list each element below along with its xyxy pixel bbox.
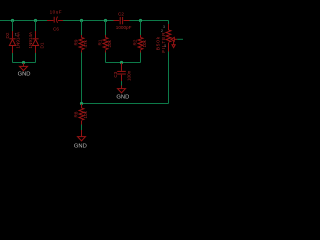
resistor R2 [133, 35, 147, 53]
svg-text:R9: R9 [74, 39, 79, 45]
potentiometer RV1 FILTER [156, 24, 178, 53]
wire pot bottom to mid bus [168, 52, 170, 104]
resistor R1 [98, 35, 112, 53]
wire D1 bottom [35, 53, 37, 63]
svg-text:2: 2 [161, 29, 163, 33]
svg-text:1000pF: 1000pF [116, 25, 132, 30]
svg-text:100n: 100n [127, 70, 132, 81]
diode D1 [28, 31, 45, 53]
node junction R8 top [80, 102, 83, 105]
svg-text:D1: D1 [40, 42, 45, 48]
svg-text:10k: 10k [142, 39, 147, 47]
wire mid bus [82, 103, 169, 105]
svg-text:D2: D2 [5, 32, 10, 38]
wire top right corner drop [168, 21, 170, 25]
svg-text:3: 3 [163, 25, 165, 29]
node junction D1 top [34, 19, 37, 22]
capacitor C3 [113, 63, 131, 81]
wire R9 bottom long [81, 53, 83, 104]
svg-text:20k: 20k [107, 39, 112, 47]
wire top bus right segment [130, 20, 169, 22]
node junction R2 top [139, 19, 142, 22]
capacitor C6 [47, 10, 63, 32]
wire top bus middle segment [63, 20, 114, 22]
svg-text:10uF: 10uF [50, 10, 62, 15]
svg-text:C2: C2 [118, 12, 124, 17]
svg-text:R8: R8 [74, 111, 79, 117]
svg-text:C6: C6 [53, 27, 59, 32]
svg-text:1N914A: 1N914A [28, 31, 33, 49]
svg-text:R2: R2 [133, 39, 138, 45]
svg-text:GND: GND [74, 143, 87, 149]
node junction C3 top [120, 61, 123, 64]
wire D1 drop [35, 21, 37, 32]
svg-text:B50k: B50k [156, 36, 162, 50]
wire top bus left segment [0, 20, 47, 22]
svg-text:1: 1 [15, 33, 17, 37]
node junction D2 top [11, 19, 14, 22]
svg-text:GND: GND [18, 72, 31, 78]
ground GND3 [74, 130, 87, 149]
diode D2 [5, 31, 21, 53]
resistor R8 [74, 104, 88, 125]
svg-text:GND: GND [116, 95, 129, 101]
ground GND2 [116, 86, 129, 101]
svg-text:10k: 10k [83, 110, 88, 118]
resistor R9 [74, 35, 88, 53]
svg-text:1: 1 [164, 44, 166, 48]
wire diode bottom bus [13, 62, 36, 64]
wire D2 drop [12, 21, 14, 32]
wire D2 bottom [12, 53, 14, 63]
wire C3 to gnd [121, 81, 123, 86]
wire R8 to gnd [81, 125, 83, 131]
wire R1 bottom [105, 53, 107, 63]
wire R1-R2 bottom bus [106, 62, 141, 64]
wire R2 top [140, 21, 142, 36]
node junction R1 top [104, 19, 107, 22]
node junction R9 top [80, 19, 83, 22]
wire wiper out [177, 38, 183, 40]
ground GND1 [18, 63, 31, 78]
svg-text:C3: C3 [113, 71, 118, 77]
node junction GND1 [22, 61, 25, 64]
wire R9 top [81, 21, 83, 36]
svg-text:R1: R1 [98, 39, 103, 45]
svg-text:47k: 47k [83, 39, 88, 47]
wire R2 bottom [140, 53, 142, 63]
capacitor C2 [114, 12, 132, 31]
wire R1 top [105, 21, 107, 36]
svg-text:FILTER: FILTER [161, 32, 167, 53]
